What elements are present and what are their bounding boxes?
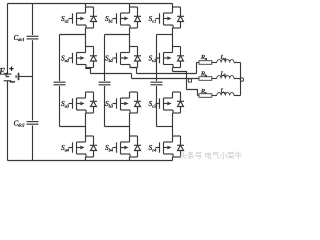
cell: horizontal cell large plate bbox=[18, 73, 20, 80]
transistor Sc3 bbox=[156, 92, 174, 113]
wire: dc midpoint wire bbox=[19, 76, 33, 78]
transistor Sb2 bbox=[113, 47, 131, 68]
svg-text:Sa3: Sa3 bbox=[61, 100, 70, 108]
transistor Sc1 bbox=[156, 7, 174, 28]
wire: leg a bottom segment bbox=[85, 157, 87, 161]
capacitor Ca flying bbox=[54, 82, 66, 85]
capacitor Cdc1 bbox=[27, 36, 39, 39]
wire: load3 lead-in bbox=[198, 95, 200, 97]
diode Db4 bbox=[130, 136, 142, 157]
wire: leg b mid segment bbox=[129, 113, 131, 136]
diode Dc3 bbox=[173, 92, 185, 113]
wire: load3 tail bbox=[234, 95, 241, 97]
wire: leg a upper segment bbox=[85, 4, 87, 48]
svg-text:Rc: Rc bbox=[200, 88, 207, 95]
svg-text:Rb: Rb bbox=[200, 71, 207, 78]
wire: flying branch b lower bbox=[104, 86, 106, 127]
transistor Sb4 bbox=[113, 136, 131, 157]
battery Ed plates bbox=[4, 74, 12, 81]
svg-text:Sb4: Sb4 bbox=[105, 144, 114, 152]
wire: leg c upper segment bbox=[172, 4, 174, 48]
diode Db1 bbox=[130, 7, 142, 28]
svg-text:Sb3: Sb3 bbox=[105, 100, 114, 108]
wire: junction a1 horizontal bbox=[60, 34, 86, 36]
diode Db2 bbox=[130, 47, 142, 68]
wire: load1 feed riser bbox=[196, 63, 198, 74]
wire: phase c run bbox=[187, 90, 198, 96]
wire: flying branch b upper bbox=[104, 35, 106, 82]
transistor Sa3 bbox=[69, 92, 87, 113]
diode Dc4 bbox=[173, 136, 185, 157]
diode Da1 bbox=[86, 7, 98, 28]
wire: dc-link line lower segment bbox=[32, 126, 34, 161]
wire: load1 lead-in bbox=[197, 62, 200, 64]
svg-text:Sa4: Sa4 bbox=[61, 144, 70, 152]
wire: dc-link line upper segment bbox=[32, 4, 34, 36]
wire: flying branch c upper bbox=[156, 35, 158, 82]
svg-text:Lc: Lc bbox=[220, 88, 227, 95]
capacitor Cc flying bbox=[151, 82, 163, 85]
inductor Lc bbox=[217, 93, 234, 96]
wire: load3 middle link bbox=[212, 95, 217, 97]
node: small square on phase a wire bbox=[188, 79, 191, 82]
wire: leg a output jog bbox=[86, 69, 91, 74]
svg-text:Sc3: Sc3 bbox=[149, 100, 157, 108]
wire: junction c1 horizontal bbox=[157, 34, 173, 36]
wire: left source line upper segment bbox=[7, 4, 9, 74]
transistor Sc4 bbox=[156, 136, 174, 157]
wire: junction b2 horizontal bbox=[105, 126, 130, 128]
wire: junction b1 horizontal bbox=[105, 34, 130, 36]
transistor Sa4 bbox=[69, 136, 87, 157]
wire: leg c output jog bbox=[173, 72, 187, 90]
wire: leg b bottom segment bbox=[129, 157, 131, 161]
transistor Sa1 bbox=[69, 7, 87, 28]
wire: load1 middle link bbox=[212, 62, 217, 64]
wire: junction a2 horizontal bbox=[60, 126, 86, 128]
transistor Sb3 bbox=[113, 92, 131, 113]
capacitor Cdc2 bbox=[27, 122, 39, 125]
svg-text:Ed: Ed bbox=[0, 66, 8, 77]
diode Db3 bbox=[130, 92, 142, 113]
wire: phase a run to step bbox=[91, 73, 132, 75]
inductor Lb bbox=[217, 76, 234, 79]
diode Dc1 bbox=[173, 7, 185, 28]
capacitor Cb flying bbox=[99, 82, 111, 85]
wire: load2 middle link bbox=[212, 78, 217, 80]
svg-text:Cdc2: Cdc2 bbox=[14, 120, 26, 127]
svg-text:Sc4: Sc4 bbox=[149, 144, 157, 152]
svg-text:Sb2: Sb2 bbox=[105, 55, 114, 63]
wire: phase a step down bbox=[131, 74, 133, 79]
svg-text:头条号 电气小菜牛: 头条号 电气小菜牛 bbox=[180, 150, 243, 160]
transistor Sa2 bbox=[69, 47, 87, 68]
wire: bottom DC rail bbox=[8, 160, 173, 162]
wire: load2 tail bbox=[234, 78, 241, 80]
wire: dc-link line middle segment bbox=[32, 40, 34, 120]
svg-text:Lb: Lb bbox=[220, 70, 227, 77]
wire: leg c mid segment bbox=[172, 68, 174, 137]
svg-text:Sa1: Sa1 bbox=[61, 15, 69, 23]
wire: leg b output jog bbox=[130, 68, 137, 74]
cell: horizontal cell small plate bbox=[15, 75, 17, 78]
wire: flying branch a upper bbox=[59, 35, 61, 82]
diode Da3 bbox=[86, 92, 98, 113]
resistor Ra bbox=[199, 61, 212, 65]
svg-text:Sa2: Sa2 bbox=[61, 55, 70, 63]
transistor Sb1 bbox=[113, 7, 131, 28]
wire: phase a run to load bbox=[132, 78, 200, 80]
wire: leg b upper segment bbox=[129, 4, 131, 48]
svg-text:Sb1: Sb1 bbox=[105, 15, 113, 23]
wire: phase b run bbox=[137, 73, 197, 75]
wire: flying branch c lower bbox=[156, 86, 158, 127]
svg-text:Cdc1: Cdc1 bbox=[14, 35, 25, 42]
wire: top DC rail bbox=[8, 3, 173, 5]
wire: flying branch a lower bbox=[59, 86, 61, 127]
wire: leg a mid segment bbox=[85, 68, 87, 137]
svg-text:Ra: Ra bbox=[200, 54, 207, 61]
transistor Sc2 bbox=[156, 47, 174, 68]
svg-text:La: La bbox=[220, 54, 227, 61]
diode Da4 bbox=[86, 136, 98, 157]
wire: neutral bus vertical bbox=[240, 63, 242, 96]
node: neutral terminal circle bbox=[240, 78, 243, 81]
resistor Rc bbox=[199, 94, 212, 98]
wire: junction c2 horizontal bbox=[157, 126, 173, 128]
wire: load1 tail bbox=[234, 62, 241, 64]
inductor La bbox=[217, 60, 234, 63]
resistor Rb bbox=[199, 77, 212, 81]
diode Dc2 bbox=[173, 47, 185, 68]
wire: leg c bottom segment bbox=[172, 157, 174, 161]
wire: left source line lower segment bbox=[7, 81, 9, 161]
svg-text:Sc1: Sc1 bbox=[149, 15, 157, 23]
label minus sign bbox=[10, 81, 15, 83]
svg-text:Sc2: Sc2 bbox=[149, 55, 157, 63]
label plus sign bbox=[9, 67, 13, 71]
diode Da2 bbox=[86, 47, 98, 68]
